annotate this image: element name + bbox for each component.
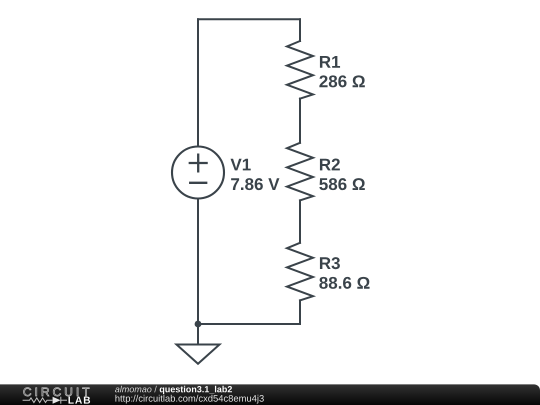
value 88.6 Ω bbox=[319, 277, 369, 289]
wire right R2-R3 bbox=[299, 200, 301, 242]
label R1 bbox=[320, 56, 340, 68]
wire left upper bbox=[197, 19, 199, 146]
CircuitLab logo resistor-diode line bbox=[23, 397, 67, 404]
footer bar bbox=[0, 384, 540, 405]
wire bottom bbox=[198, 323, 300, 325]
value 586 Ω bbox=[319, 178, 365, 190]
wire top bbox=[198, 18, 300, 20]
CircuitLab logo wordmark LAB bbox=[68, 397, 90, 404]
label V1 bbox=[231, 159, 251, 171]
CircuitLab logo wordmark CIRCUIT bbox=[24, 388, 90, 396]
value 286 Ω bbox=[319, 75, 364, 87]
label R2 bbox=[320, 159, 340, 171]
wire right top bbox=[299, 19, 301, 41]
junction node bbox=[195, 321, 202, 328]
wire right bottom bbox=[299, 300, 301, 324]
label R3 bbox=[320, 257, 340, 269]
resistor R2 bbox=[287, 143, 313, 201]
value 7.86 V bbox=[231, 178, 279, 190]
voltage source V1 bbox=[172, 147, 224, 199]
footer title text bbox=[115, 386, 157, 393]
wire left lower bbox=[197, 199, 199, 324]
resistor R3 bbox=[287, 243, 313, 301]
ground bbox=[177, 324, 220, 364]
footer url text bbox=[115, 395, 263, 404]
wire right R1-R2 bbox=[299, 99, 301, 143]
resistor R1 bbox=[287, 41, 313, 99]
